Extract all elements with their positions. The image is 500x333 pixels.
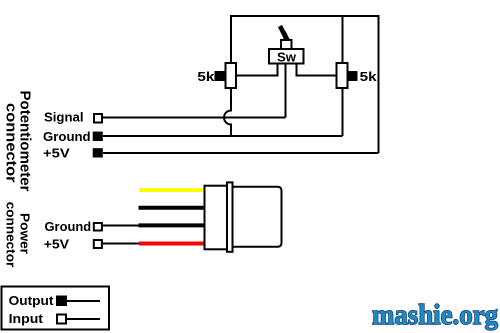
pin +5V square (output, filled) — [93, 148, 103, 157]
wire right vertical from top bus to +5V line — [378, 15, 380, 153]
wire thin lead +5V square to red wire — [103, 243, 139, 245]
wire thin lead ground square to black wire — [103, 225, 139, 227]
wire +5V line — [103, 152, 379, 154]
wire Sw right leg to R2 — [297, 64, 337, 76]
wire black power lead 2 (ground) — [139, 223, 204, 227]
connector body left box — [205, 186, 228, 250]
legend input line — [67, 318, 100, 320]
wire red power lead (+5V) — [139, 242, 204, 246]
connector body right box (rounded right corners) — [233, 187, 282, 247]
svg-text:Signal: Signal — [44, 110, 84, 125]
svg-text:Ground: Ground — [43, 129, 91, 144]
svg-text:Sw: Sw — [277, 50, 297, 65]
resistor R2 body — [337, 63, 348, 88]
wire top horizontal bus — [231, 15, 379, 17]
svg-text:Input: Input — [9, 311, 44, 326]
wire black power lead 1 — [139, 206, 204, 210]
svg-text:5k: 5k — [360, 69, 378, 84]
switch Sw lever — [280, 26, 287, 39]
switch Sw pivot square — [281, 40, 292, 49]
resistor R1 terminal pad — [215, 71, 225, 81]
svg-text:mashie.org: mashie.org — [372, 300, 498, 331]
svg-text:Power: Power — [17, 213, 32, 254]
switch Sw lever base flare — [283, 31, 290, 40]
svg-text:Output: Output — [9, 293, 55, 308]
svg-text:5k: 5k — [197, 69, 215, 84]
wire Signal line — [103, 117, 286, 119]
wire yellow power lead — [139, 188, 204, 192]
wire R1 bottom to Ground line with hop over Signal — [224, 87, 231, 137]
wire R2 bottom to Ground line — [342, 87, 344, 136]
svg-text:connector: connector — [4, 202, 19, 268]
pin Signal square (input, open) — [94, 114, 102, 123]
legend input square (open) — [57, 315, 66, 324]
svg-text:connector: connector — [3, 103, 20, 183]
connector flange tab — [227, 182, 233, 251]
legend box — [2, 287, 110, 330]
pin Ground square (output, filled) — [93, 132, 103, 141]
wire R1 to Sw left leg — [236, 64, 278, 76]
resistor R1 body — [226, 63, 237, 88]
pin +5V square power (input, open) — [94, 240, 102, 248]
wire left vertical from top bus to R1 top — [230, 15, 232, 63]
wire vertical from top bus to R2 top — [342, 15, 344, 64]
legend output square (filled) — [56, 296, 67, 307]
wire Sw center pole down to Signal line — [285, 64, 287, 118]
pin Ground square power (input, open) — [94, 223, 102, 231]
switch Sw body — [269, 49, 304, 64]
resistor R2 terminal pad — [348, 71, 358, 81]
svg-text:+5V: +5V — [44, 236, 70, 251]
svg-text:Ground: Ground — [45, 219, 92, 234]
legend output line — [67, 300, 100, 302]
wire Ground line — [103, 135, 343, 137]
svg-text:+5V: +5V — [43, 146, 70, 161]
